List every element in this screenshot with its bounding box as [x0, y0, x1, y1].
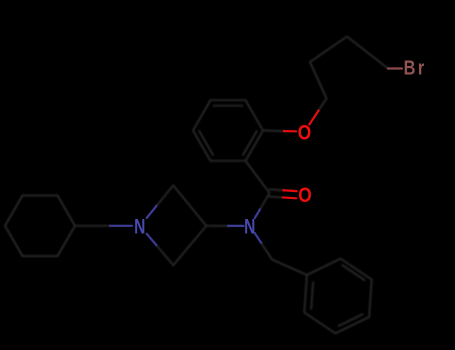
- wire cyclohexyl to N1 (N half): [110, 225, 132, 227]
- wire azetidine C3-C4: [173, 226, 206, 265]
- wire N2-carbonylC (N half): [255, 210, 260, 219]
- phenyl inner double 3: [311, 282, 313, 308]
- wire carbonylC to benzene ipso: [246, 161, 270, 193]
- wire chain C1-C2: [310, 62, 327, 99]
- wire N2-benzylCH2 (C half): [261, 243, 272, 260]
- svg-text:N: N: [134, 214, 145, 238]
- carbonyl C=O line2 (O half): [283, 196, 297, 199]
- benzene inner double left: [199, 131, 213, 155]
- wire chain C3-C4: [347, 37, 388, 69]
- carbonyl C=O line2 (C half): [269, 196, 283, 199]
- benzene inner double right: [243, 131, 257, 155]
- wire etherO-chainC1 (O half): [309, 111, 318, 125]
- wire N1-azetidineC2 (C half): [156, 185, 173, 206]
- phenyl ring benzyl: [304, 259, 371, 334]
- wire etherO-chainC1 (C half): [319, 99, 327, 111]
- wire azetidine C4-N1 (N half): [147, 234, 157, 245]
- svg-text:N: N: [244, 214, 255, 238]
- benzene inner double top: [214, 105, 243, 107]
- svg-text:Br: Br: [404, 56, 427, 79]
- phenyl inner double 1: [343, 265, 365, 280]
- wire benzene to etherO (O half): [284, 130, 296, 132]
- benzene ring upper: [193, 100, 263, 161]
- wire C4 to Br: [388, 67, 402, 69]
- wire azetidine C3 to N2 (N half): [228, 225, 243, 227]
- cyclohexane ring: [5, 196, 75, 257]
- wire N2-carbonylC (C half): [260, 193, 270, 210]
- wire chain C2-C3: [310, 37, 347, 63]
- wire azetidine C2-C3: [173, 185, 206, 225]
- wire benzene to etherO (C half): [263, 129, 284, 132]
- svg-text:O: O: [298, 121, 311, 145]
- wire N1-azetidineC2 (N half): [147, 206, 157, 218]
- wire cyclohexyl to N1 (C half): [75, 225, 110, 227]
- phenyl inner double 2: [339, 314, 363, 326]
- wire benzylCH2 to phenyl ipso: [272, 260, 307, 276]
- wire N2-benzylCH2 (N half): [255, 233, 262, 243]
- svg-text:O: O: [298, 183, 311, 207]
- wire azetidine C3 to N2 (C half): [206, 225, 228, 227]
- carbonyl C=O line1 (C half): [270, 188, 284, 191]
- carbonyl C=O line1 (O half): [283, 189, 297, 192]
- wire azetidine C4-N1 (C half): [156, 245, 173, 265]
